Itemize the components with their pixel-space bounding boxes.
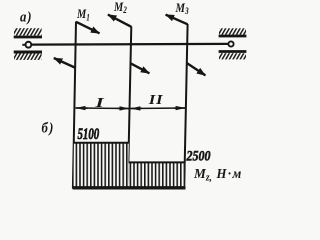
svg-text:а): а) [20,10,32,26]
section line 2 (at M2) [128,27,132,189]
moment M1 lower arrow [54,58,75,68]
left bearing circle [26,42,32,48]
dimension arrow right of I [117,107,129,109]
torque diagram tall bar (5100) hatch fill [73,143,129,188]
section line 1 (at M1) [73,22,76,189]
svg-text:б): б) [42,121,55,137]
left shaft stub through bearing [22,44,26,46]
svg-text:I: I [94,94,105,110]
right bearing circle [228,41,233,46]
left wall support lower hatch [14,54,42,60]
torque diagram short bar (2500) hatch fill [128,162,185,187]
section line 3 (at M3) [184,24,187,189]
left wall support upper surface line [14,36,42,39]
right wall support lower hatch [219,53,246,59]
moment M2 lower arrow [130,63,149,73]
dimension arrow right of II [174,107,185,109]
dimension arrow left of II [131,107,142,109]
left wall support lower surface line [14,51,42,54]
moment M3 lower arrow [187,63,206,75]
right wall support lower surface line [219,50,247,53]
svg-text:II: II [148,93,164,108]
shaft line [31,43,228,46]
dimension line II segment [130,107,186,110]
svg-text:Mz, Н·м: Mz, Н·м [193,166,243,184]
torque diagram tall bar outline top [74,142,129,144]
moment M3 upper arrow [166,15,188,25]
moment M2 upper arrow [108,15,131,27]
moment M1 upper arrow [76,22,100,34]
svg-text:2500: 2500 [186,147,211,164]
right wall support upper hatch [219,28,246,34]
dimension line I segment [76,107,130,110]
left wall support upper hatch [14,28,42,35]
right wall support upper surface line [219,35,247,38]
svg-text:5100: 5100 [78,125,100,143]
torque diagram baseline [73,186,186,189]
torque diagram short bar outline top [129,161,186,163]
dimension arrow left of I [76,107,88,109]
